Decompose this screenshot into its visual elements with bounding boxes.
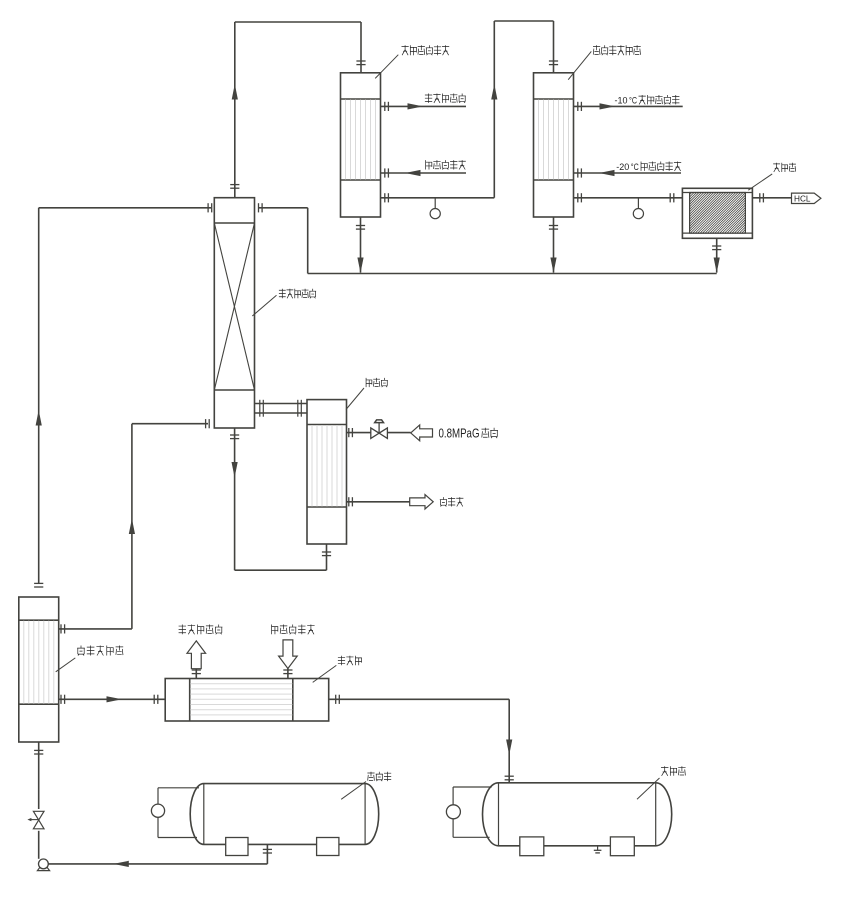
flange pair on exchanger bottom outlet xyxy=(34,750,43,754)
hollow arrow: 0.8MPaG steam supply (pointing left) xyxy=(411,425,433,441)
flange pair on reboiler bottom outlet xyxy=(322,552,331,556)
flange pair at demister outlet xyxy=(760,193,764,202)
flow arrow left on cooling water inlet xyxy=(405,170,421,176)
wire: valve to steam source arrow xyxy=(387,432,410,434)
flow arrow left toward pump xyxy=(113,861,129,867)
flange pair at tower bottom-left nozzle xyxy=(206,419,210,428)
svg-text:0.8MPaG: 0.8MPaG xyxy=(439,427,480,441)
flow arrow up on exchanger-to-tower line xyxy=(129,519,135,535)
wire: demister bottom drain to collection header xyxy=(716,238,718,272)
wire: HX2 bottom drain down to collection header xyxy=(553,217,555,273)
flange pair at exchanger top-right nozzle xyxy=(61,624,65,633)
flange pair at cooler west nozzle xyxy=(154,695,158,704)
vessel: HCl cooler (shell and tube, vertical) xyxy=(341,73,381,217)
flange pair before demister inlet xyxy=(670,193,674,202)
flange pair above HCl cooler top xyxy=(356,61,365,65)
nozzle: reboiler steam inlet with flange xyxy=(347,428,371,437)
flange pair above HX2 top xyxy=(549,61,558,65)
flange pair on HX2 bottom drain xyxy=(549,226,558,230)
flange pair at cooler east nozzle xyxy=(336,695,340,704)
flange pair at dilute tank inlet xyxy=(505,776,514,780)
flow arrow down on HX2 drain xyxy=(550,258,556,274)
pipe: tower to reboiler vapor duct (double line) with flanges xyxy=(255,400,308,417)
label leader line for double-effect exchanger xyxy=(56,658,76,672)
nozzle: HX1 cooling water outlet with flange xyxy=(381,102,467,111)
vessel: demister (hatched box) xyxy=(649,188,785,238)
flow arrow up on riser to HX2 xyxy=(491,84,497,100)
vessel: double-effect heat exchanger (vertical shell and tube) xyxy=(19,597,59,742)
nozzle: HX2 -20C chilled water inlet with flange xyxy=(574,168,682,177)
vessel: concentrated acid desorption tower (packed column) xyxy=(214,198,254,428)
flange pair at tower top-left nozzle xyxy=(208,203,212,212)
label: condensate water (Chinese) xyxy=(440,497,464,506)
nozzle: HX1 cooling water inlet with flange xyxy=(381,168,467,177)
nozzle: reboiler condensate outlet with flange xyxy=(347,497,410,506)
wire: HX2 bottom outlet to demister xyxy=(574,197,683,199)
label: 0.8MPaG steam xyxy=(439,427,498,441)
svg-text:HCL: HCL xyxy=(794,194,811,203)
svg-text:-10: -10 xyxy=(615,96,628,107)
flange pair at HX2 bottom side nozzle xyxy=(578,193,582,202)
flow arrow right on -10C chilled water outlet xyxy=(600,103,616,109)
label leader line for dilute acid tank xyxy=(637,778,660,799)
label: double-effect heat exchanger (Chinese) xyxy=(77,646,123,656)
label: concentrated acid desorption tower (Chinese) xyxy=(279,289,316,299)
flow arrow right toward cooler xyxy=(107,696,123,702)
saddle support left of concentrated tank xyxy=(226,838,248,856)
vessel: product cooler (horizontal shell and tube) xyxy=(165,679,329,722)
label: cooling water inlet (Chinese) xyxy=(426,160,466,169)
level gauge on concentrated acid tank xyxy=(151,788,199,838)
flow arrow down on tower bottom outlet xyxy=(232,462,238,478)
label: HCl cooler (Chinese) xyxy=(402,45,450,55)
pump: concentrated acid pump (circle with base) xyxy=(37,859,49,871)
flange pair at exchanger mid-right nozzle xyxy=(61,695,65,704)
flow arrow up on tower overhead line xyxy=(232,84,238,100)
label leader line for HCl condenser cooler xyxy=(568,51,591,79)
flow arrow down on demister drain xyxy=(714,258,720,274)
label leader line for cooler xyxy=(313,665,337,682)
flange pair on demister drain xyxy=(712,246,721,250)
label leader line for reboiler xyxy=(346,388,364,410)
flange pair at HX1 bottom side nozzle xyxy=(385,193,389,202)
label: reboiler (Chinese) xyxy=(366,378,388,387)
flange pair on tower bottom outlet xyxy=(230,435,239,439)
flow arrow down into dilute acid tank xyxy=(506,740,512,756)
wire: cooler east nozzle to dilute acid tank inlet xyxy=(329,699,510,783)
flange pair on HX1 bottom drain xyxy=(356,226,365,230)
svg-text:-20: -20 xyxy=(616,162,629,173)
label leader line for desorption tower xyxy=(252,295,276,316)
saddle support right of dilute tank xyxy=(610,837,634,856)
flow arrow left on -20C chilled water inlet xyxy=(599,170,615,176)
label: -10C chilled water outlet xyxy=(615,95,680,107)
hollow arrow up: cooling water outlet xyxy=(187,641,206,669)
nozzle: cooler cooling water outlet (top-left) with flange xyxy=(192,669,201,679)
label leader line for demister xyxy=(748,174,772,190)
wire: exchanger bottom outlet down to pump xyxy=(38,742,40,859)
hollow arrow: condensate out (pointing right) xyxy=(410,495,434,509)
vessel: dilute acid tank (horizontal drum) xyxy=(483,783,672,846)
label: cooling water inlet above cooler (Chinese) xyxy=(272,625,315,635)
wire: HX1 bottom drain down to collection header xyxy=(360,217,362,273)
flow arrow down on HX1 drain xyxy=(357,258,363,274)
vessel: concentrated acid tank (horizontal drum) xyxy=(190,784,379,845)
label: demister (Chinese) xyxy=(773,163,796,172)
label: dilute acid tank (Chinese) xyxy=(661,766,686,776)
flow arrow right on cooling water outlet xyxy=(408,103,424,109)
wire: exchanger top-right nozzle to tower bottom-left line xyxy=(59,628,132,630)
wire: pump suction line from concentrated acid tank xyxy=(48,863,267,865)
flange pair above double-effect exchanger top xyxy=(34,583,43,587)
vessel: reboiler (vertical shell and tube) xyxy=(307,400,347,544)
saddle support left of dilute tank xyxy=(520,837,544,856)
instrument circle under HX1 outlet line xyxy=(430,198,440,219)
nozzle: concentrated tank bottom outlet to pump suction xyxy=(263,844,272,864)
vessel: HCl condenser cooler (shell and tube, vertical) xyxy=(534,73,574,217)
valve: pump discharge valve (vertical) with side stem xyxy=(27,809,46,831)
label: cooling water outlet (Chinese) xyxy=(425,94,466,103)
label leader line for concentrated acid tank xyxy=(341,782,366,800)
saddle support right of concentrated tank xyxy=(317,838,339,856)
flange pair at tower top-right nozzle xyxy=(259,203,263,212)
ground symbol under dilute tank xyxy=(594,846,602,853)
hollow arrow down: cooling water inlet xyxy=(279,640,298,669)
wire: HX1 bottom outlet to riser, up and over to HX2 top xyxy=(381,21,554,198)
valve: steam control valve (globe) with stem xyxy=(371,420,388,439)
svg-text:°C: °C xyxy=(629,96,637,106)
label: concentrated acid tank (Chinese) xyxy=(367,772,391,781)
wire: condensate collection header from tower top-right across to demister drain xyxy=(258,208,717,274)
flange pair on tower top vertical xyxy=(230,185,239,189)
wire: demister outlet to HCL flag xyxy=(752,197,791,199)
label: cooling water outlet above cooler (Chinese) xyxy=(179,625,223,635)
wire: exchanger mid-right nozzle to cooler west nozzle xyxy=(59,698,166,700)
label: cooler (Chinese) xyxy=(338,656,362,665)
nozzle: cooler cooling water inlet (top-right) with flange xyxy=(283,669,292,679)
label: HCl condenser cooler (Chinese) xyxy=(593,45,641,55)
wire: tower bottom outlet down then right to reboiler bottom xyxy=(235,428,327,570)
flow arrow up on left riser feed line xyxy=(36,410,42,426)
wire: tower bottom-left nozzle down to double-effect exchanger top-right xyxy=(132,424,208,629)
nozzle: HX2 -10C chilled water outlet with flange xyxy=(574,102,683,111)
level gauge on dilute acid tank xyxy=(446,787,491,837)
instrument circle under HX2 outlet line xyxy=(633,198,643,219)
svg-text:°C: °C xyxy=(631,162,639,172)
node: HCL product flag xyxy=(792,193,821,203)
label leader line for HCl cooler xyxy=(375,55,398,79)
wire: tower top-left feed nozzle to left riser xyxy=(39,208,211,583)
label: -20C chilled water inlet xyxy=(616,162,681,174)
wire: tower overhead to HCl cooler (vertical from tower top, across y=22, down to HX1 top) xyxy=(235,22,361,198)
